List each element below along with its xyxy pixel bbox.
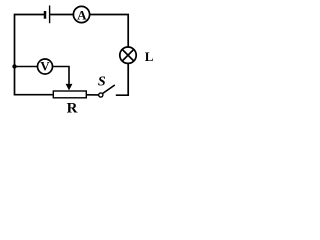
wire junction to voltmeter <box>15 66 37 68</box>
switch S lever (open) <box>102 85 114 94</box>
wire rheostat to switch pivot <box>87 94 99 96</box>
svg-text:S: S <box>98 75 106 90</box>
svg-text:L: L <box>145 49 154 64</box>
wire lamp down to bottom-right corner to switch <box>116 64 128 96</box>
battery B1 short (negative) plate <box>44 11 47 19</box>
ammeter A body <box>73 6 89 22</box>
svg-text:A: A <box>77 7 87 22</box>
wire voltmeter to slider arrow <box>53 67 69 85</box>
wire ammeter to top-right corner down to lamp <box>89 15 128 48</box>
lamp L cross stroke 1 <box>122 49 134 61</box>
lamp L body <box>120 47 136 63</box>
node junction dot (voltmeter tap on left wire) <box>12 64 16 68</box>
svg-text:V: V <box>40 60 50 74</box>
wire left loop: top wire, left side, bottom wire to rheostat <box>15 15 53 95</box>
lamp L cross stroke 2 <box>122 49 134 61</box>
switch S pivot <box>99 93 103 97</box>
battery B1 long (positive) plate <box>49 6 51 24</box>
svg-text:R: R <box>67 101 78 117</box>
slider arrow head <box>66 84 73 91</box>
voltmeter V body <box>38 59 53 74</box>
wire battery to ammeter <box>50 14 74 16</box>
rheostat R body <box>53 91 86 98</box>
